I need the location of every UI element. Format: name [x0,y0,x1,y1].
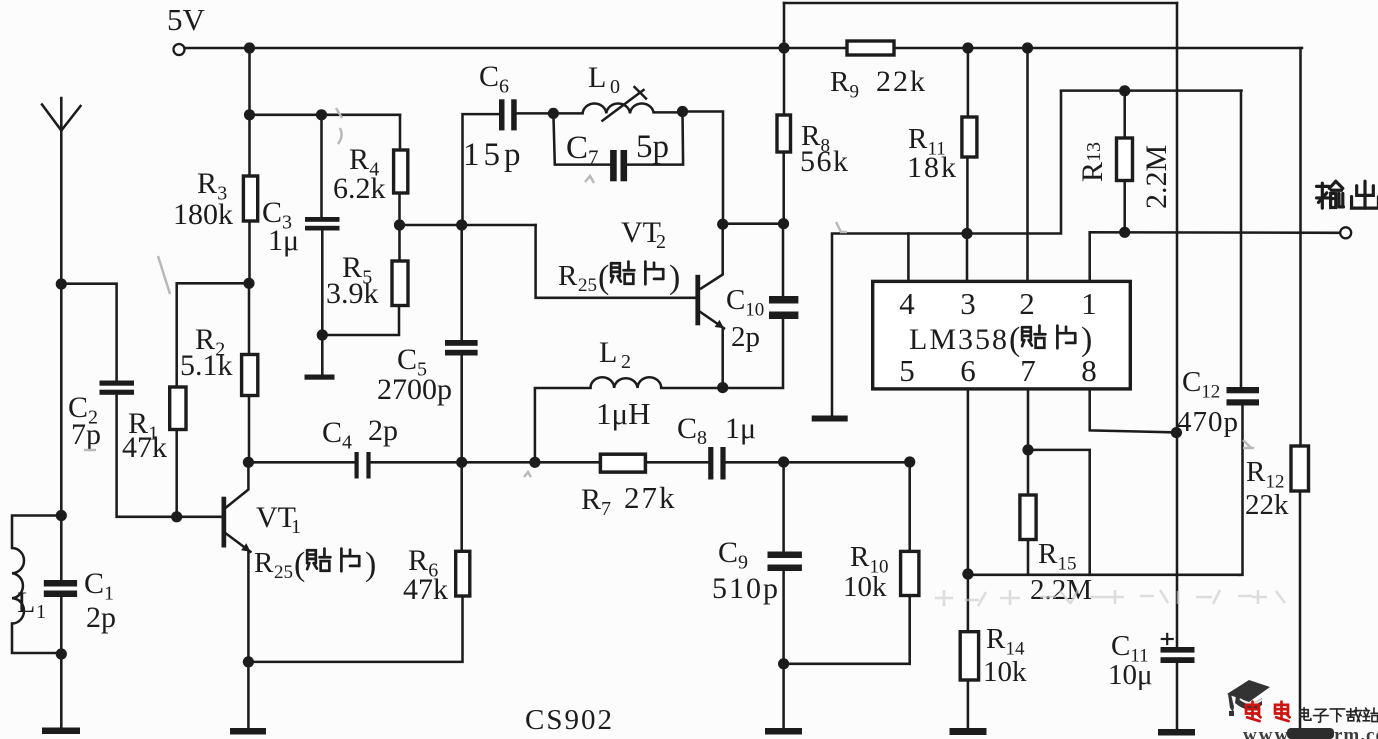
svg-text:10μ: 10μ [1108,659,1153,691]
node: VT2 collector junction [717,219,728,230]
svg-text:rm.com: rm.com [1334,725,1378,739]
svg-text:2p: 2p [86,601,116,634]
resistor R4 6.2k [394,150,408,193]
ground (R14) [950,728,987,735]
transistor VT1 [222,497,227,548]
svg-text:6: 6 [960,353,976,388]
svg-text:C: C [479,60,499,93]
capacitor C12 470p [1240,91,1243,387]
capacitor C6 15p [463,114,500,225]
svg-text:C: C [397,343,417,376]
resistor R11 18k [967,48,970,117]
svg-text:2p: 2p [731,321,760,353]
resistor R12 22k [1291,446,1309,491]
svg-text:C: C [726,284,745,316]
inductor L0 (variable) [553,112,582,115]
resistor R3 180k [248,115,251,176]
node: L0 right [677,106,688,117]
node: C3 bottom junction [317,329,328,340]
resistor R13 2.2M (labels rotated) [1123,91,1126,138]
inductor L2 1uH [535,388,591,462]
wire: R13 top row y=91 [1061,89,1242,92]
svg-text:2: 2 [656,231,666,253]
wire: main coupling row y=462 [243,457,254,468]
svg-text:R: R [850,541,870,573]
svg-text:47k: 47k [122,431,167,464]
svg-text:1μ: 1μ [268,224,299,257]
ground (C3/R5) [321,335,324,375]
svg-text:C: C [677,412,697,445]
output terminal [1340,227,1351,238]
wire: output line from pin 1 [1090,232,1340,281]
ground (antenna/L1/C1) [42,728,80,735]
node: rail junctions [244,42,255,53]
svg-text:56k: 56k [800,145,850,178]
wire: 5V rail [185,47,848,50]
svg-text:6.2k: 6.2k [333,172,386,205]
svg-text:2.2M: 2.2M [1030,574,1092,606]
resistor R8 56k [783,41,786,115]
svg-text:C: C [322,416,342,449]
node: R1 bottom on VT1 base wire [171,511,182,522]
svg-text:LM358: LM358 [909,323,1009,356]
svg-text:R: R [1038,538,1058,570]
svg-text:R: R [197,167,217,200]
node: L0 left [548,108,559,119]
svg-text:1: 1 [1081,286,1097,321]
wire: pin 7 node [1027,389,1030,450]
ground (C11) [1158,729,1195,736]
svg-text:1: 1 [36,601,46,623]
capacitor C7 5p (below L0) [553,113,610,164]
svg-text:22k: 22k [876,65,927,98]
svg-text:L: L [599,336,617,369]
svg-text:2p: 2p [368,414,398,447]
svg-text:): ) [365,546,376,583]
capacitor C5 2700p [460,225,463,340]
svg-text:10k: 10k [983,656,1027,688]
svg-text:C: C [1182,366,1201,398]
svg-text:470p: 470p [1177,406,1239,438]
resistor R7 27k (series) [600,454,645,472]
faint scanner watermark band [935,590,1285,606]
svg-text:25: 25 [274,562,293,583]
wire: pin 4 riser [907,234,910,282]
svg-text:5p: 5p [636,129,669,165]
svg-text:4: 4 [899,286,915,321]
svg-text:R: R [830,66,850,98]
svg-text:15p: 15p [463,137,525,173]
svg-text:VT: VT [621,216,661,249]
faint scan marks [84,108,1254,477]
watermark: eeworm logo cap [1227,680,1270,716]
wire: collector row to R8 [723,222,784,225]
svg-text:10: 10 [745,300,764,321]
resistor R9 (in series with 5V rail) [847,41,894,55]
resistor R10 10k [908,462,911,551]
svg-text:R: R [1246,456,1266,488]
svg-text:VT: VT [256,501,296,534]
svg-text:8: 8 [697,427,707,449]
svg-text:6: 6 [499,76,509,98]
svg-text:): ) [669,259,680,296]
svg-text:1μ: 1μ [725,412,756,445]
arrow across L0 [603,90,644,121]
capacitor C8 1u (series) [708,447,713,480]
capacitor C11 10u (electrolytic) [1161,647,1195,653]
svg-text:22k: 22k [1245,489,1289,521]
wire: L0 right to VT2 collector column [683,112,724,225]
svg-text:C: C [566,130,588,166]
resistor R5 3.9k [392,261,408,306]
svg-text:1μH: 1μH [596,396,651,431]
svg-text:12: 12 [1201,382,1220,403]
wire: pin 8 to long vertical [1090,389,1176,433]
svg-text:C: C [718,536,738,569]
capacitor C9 510p [782,462,785,552]
svg-text:R: R [1076,162,1109,182]
label: output (shu chu) [1317,181,1344,208]
svg-text:7: 7 [588,146,599,170]
svg-text:15: 15 [1058,554,1077,575]
node: VT1 emitter junction [243,656,254,667]
wire: R12 branch from 5V rail [1299,48,1302,446]
svg-text:7: 7 [601,498,611,520]
wire: antenna to C2 [61,284,116,381]
ground (pin 4 net) [812,416,848,422]
wire: pin 2 riser (to 5V rail) [1026,48,1029,281]
wire: pin 3 riser [966,234,969,282]
svg-text:3: 3 [960,286,976,321]
svg-text:27k: 27k [624,480,677,515]
capacitor C3 1u [320,115,323,217]
ground (C9) [765,728,802,735]
svg-text:0: 0 [610,76,620,98]
svg-text:C: C [1111,630,1130,662]
svg-text:8: 8 [1081,353,1097,388]
svg-text:25: 25 [578,275,597,296]
svg-text:10k: 10k [843,571,887,603]
svg-text:2: 2 [621,351,631,373]
svg-text:5: 5 [899,353,915,388]
plus sign of C11 [1162,638,1173,640]
svg-text:3.9k: 3.9k [326,277,379,310]
resistor R2 5.1k [248,283,251,354]
svg-text:47k: 47k [403,573,448,606]
wire: top loop from R8 column to long right vertical [784,2,1177,5]
inductor L1 [12,516,61,549]
svg-text:7p: 7p [71,418,101,451]
wire: R3 bottom junction to R1 [243,278,254,289]
wire: R5 bottom to C3 bottom [322,306,399,336]
capacitor C10 2p [782,224,785,296]
node: R13 bottom on output line [1119,227,1130,238]
5V supply terminal [174,44,185,55]
svg-text:5.1k: 5.1k [180,349,233,382]
capacitor C4 2p [355,452,359,479]
wire: R3/R4 top feed row y=115 [248,48,251,115]
svg-text:C: C [84,567,104,600]
svg-text:1: 1 [291,516,301,538]
wire: pin 6 / feedback row y=574.5 [967,389,970,632]
svg-text:L: L [17,586,35,619]
svg-text:L: L [588,61,606,94]
svg-text:): ) [1081,321,1092,358]
antenna [60,98,63,284]
IC U1 LM358 box [873,281,1131,389]
capacitor C2 7p [100,381,135,386]
svg-text:9: 9 [850,82,860,103]
svg-text:18k: 18k [907,151,958,184]
resistor R6 47k [460,462,463,551]
wire: long vertical right rail x=1177 (top line to C11) [1176,3,1179,647]
svg-text:R: R [558,260,578,292]
capacitor C1 2p [56,510,67,521]
ground (VT1 emitter) [230,728,266,735]
svg-text:7: 7 [1020,353,1036,388]
svg-text:R: R [254,547,274,579]
svg-text:2.2M: 2.2M [1140,145,1173,209]
watermark: chongchong red characters [1246,702,1261,721]
wire: ground net row y=233 (pins 3,4) [832,91,1061,416]
wire: to VT2 base [536,225,695,298]
svg-text:(: ( [294,546,305,583]
watermark: site name characters [1300,708,1311,721]
svg-text:5V: 5V [167,2,206,37]
svg-text:CS902: CS902 [525,704,614,736]
resistor R1 47k [170,387,186,430]
svg-text:(: ( [1009,321,1020,358]
node: VT2 emitter / L2 junction [717,382,728,393]
svg-text:180k: 180k [173,198,233,231]
svg-text:4: 4 [342,432,352,454]
svg-text:2700p: 2700p [377,373,452,406]
resistor R15 2.2M [1027,450,1030,495]
svg-text:(: ( [598,259,609,296]
svg-text:R: R [986,623,1006,655]
svg-text:13: 13 [1083,142,1105,162]
svg-text:9: 9 [738,552,748,574]
resistor R14 10k [960,632,978,680]
transistor VT2 [701,224,723,288]
svg-text:2: 2 [1019,286,1035,321]
svg-text:R: R [581,483,601,516]
wire: bias row y=225 [400,224,536,227]
svg-text:510p: 510p [712,572,780,605]
